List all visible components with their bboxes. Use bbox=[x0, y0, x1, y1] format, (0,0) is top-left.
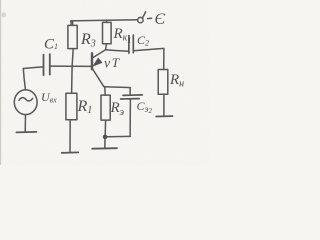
transistor emitter arrow bbox=[93, 58, 101, 66]
wire emitter down to RE bbox=[103, 86, 105, 95]
wire input to C1 bbox=[23, 67, 43, 69]
ground (source) bbox=[16, 131, 36, 134]
wire C2 to RH bbox=[133, 48, 164, 69]
capacitor C2 bbox=[128, 36, 130, 54]
wire top supply rail bbox=[71, 20, 138, 25]
wire source up bbox=[23, 69, 25, 91]
resistor RH bbox=[158, 70, 168, 95]
wire emitter branch to CE bbox=[104, 86, 130, 89]
resistor RK1 bbox=[106, 20, 108, 22]
capacitor C1 bbox=[43, 55, 45, 76]
paper background bbox=[0, 0, 209, 165]
capacitor CE bbox=[129, 88, 131, 95]
scan left edge bbox=[0, 0, 1, 165]
transistor VT emitter lead bbox=[92, 69, 103, 86]
transistor VT base bar bbox=[91, 53, 93, 69]
ground (RH) bbox=[156, 115, 172, 117]
ground (R1) bbox=[62, 151, 79, 154]
source Uvx bbox=[14, 90, 37, 115]
label minus sign of -E bbox=[148, 17, 152, 19]
wire C1 to base bbox=[51, 65, 91, 67]
node junction dot bbox=[103, 135, 108, 140]
paper smudge bbox=[1, 12, 6, 17]
transistor VT collector lead bbox=[93, 50, 106, 58]
wire collector node to C2 bbox=[106, 50, 129, 52]
wire RE to ground bbox=[104, 139, 106, 148]
resistor RE bbox=[101, 95, 110, 120]
svg-text:Є: Є bbox=[155, 11, 166, 28]
wire CE to RE junction bbox=[108, 135, 131, 137]
terminal -E bbox=[138, 17, 143, 22]
resistor R1 bbox=[66, 93, 77, 120]
svg-text:vT: vT bbox=[104, 55, 120, 72]
wire source down bbox=[24, 115, 26, 132]
resistor R3 bbox=[72, 21, 74, 26]
ground (RE) bbox=[92, 147, 117, 150]
